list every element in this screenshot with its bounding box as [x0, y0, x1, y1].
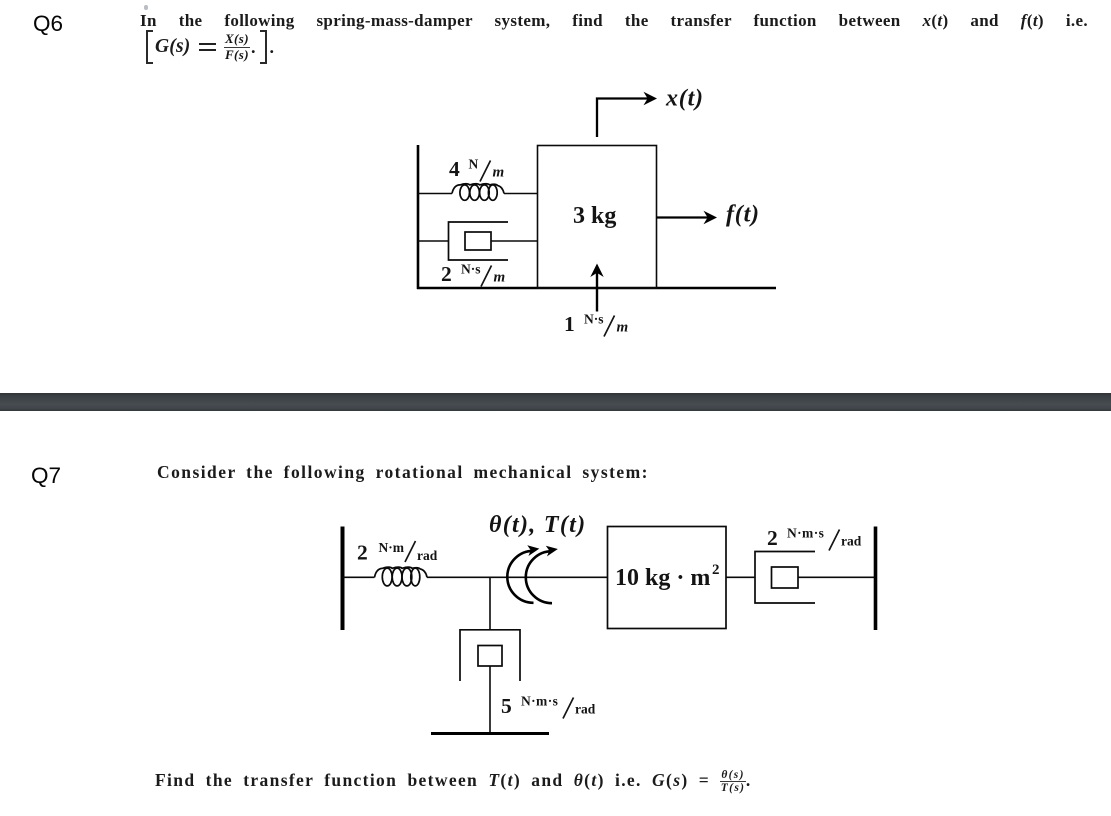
- svg-text:m: m: [493, 165, 505, 181]
- spring K lead wire from wall: [418, 193, 452, 195]
- G(s): [155, 36, 190, 58]
- equals sign: [199, 43, 216, 50]
- displacement arrow x(t): [597, 99, 648, 138]
- period: [251, 37, 256, 58]
- shaft wire from spring to inertia: [427, 576, 608, 578]
- Q7 question number label: [31, 463, 61, 489]
- node label θ(t), T(t): [489, 512, 586, 538]
- spring value label 2 N·m/rad: [357, 540, 438, 565]
- force arrow f(t): [657, 216, 709, 218]
- svg-text:5: 5: [501, 694, 512, 718]
- dark divider bar: [0, 393, 1111, 411]
- svg-text:4: 4: [449, 157, 460, 181]
- friction arrowhead: [590, 264, 603, 278]
- svg-text:f(t): f(t): [726, 202, 760, 228]
- Q7 rotational system diagram: [330, 505, 890, 745]
- force arrowhead: [704, 211, 718, 224]
- mass M box: [538, 146, 657, 289]
- shaft wire from inertia to damper B2r: [726, 576, 755, 578]
- svg-text:10 kg · m: 10 kg · m: [615, 565, 710, 591]
- damper B2r piston: [772, 567, 799, 588]
- left bracket: [146, 30, 153, 64]
- Q6 problem statement line 1 (justified): [140, 11, 1088, 31]
- inertia value label 10 kg·m²: [615, 562, 720, 591]
- spring K coil: [452, 184, 504, 201]
- svg-text:N·m·s: N·m·s: [787, 526, 824, 541]
- svg-text:θ(t), T(t): θ(t), T(t): [489, 512, 586, 538]
- svg-text:2: 2: [712, 562, 720, 578]
- fraction X(s)/F(s): [224, 32, 250, 61]
- svg-text:rad: rad: [575, 702, 596, 717]
- svg-text:x(t): x(t): [665, 86, 704, 112]
- svg-text:m: m: [617, 320, 629, 336]
- ground line: [417, 287, 776, 290]
- trailing period: [269, 37, 274, 58]
- svg-text:3 kg: 3 kg: [573, 203, 616, 229]
- Q6 question number label: [33, 11, 63, 37]
- torque arrow arc outer: [507, 551, 533, 603]
- friction value label 1 N·s/m: [564, 312, 629, 337]
- torque arrow arc inner: [526, 551, 552, 603]
- inertia J box: [608, 527, 727, 629]
- svg-text:2: 2: [357, 541, 368, 565]
- svg-text:rad: rad: [841, 534, 862, 549]
- svg-text:N: N: [469, 157, 479, 172]
- torque arrowhead outer: [527, 543, 541, 556]
- torsional spring lead wire: [343, 576, 375, 578]
- damper B5 cylinder (open bottom): [460, 630, 520, 681]
- svg-text:m: m: [494, 270, 506, 286]
- damper B2r piston rod to right wall: [798, 576, 875, 578]
- ground line: [431, 732, 549, 735]
- Q6 equation [G(s) = X(s)/F(s).].: [146, 32, 274, 63]
- torsional spring coil: [375, 567, 428, 586]
- damper B2 rod from wall: [418, 240, 449, 242]
- damper B2 piston: [465, 232, 491, 250]
- damper value label 2 N·s/m: [441, 262, 506, 287]
- damper B5 piston rod to ground: [489, 666, 491, 734]
- damper B2r value label 2 N·m·s/rad: [767, 526, 862, 551]
- junction wire down to damper: [489, 577, 491, 630]
- stray scan smudge: [144, 5, 148, 10]
- displacement arrowhead: [644, 92, 658, 105]
- svg-text:2: 2: [441, 262, 452, 286]
- Q7 closing text: [155, 769, 752, 795]
- wall (left fixed support): [417, 145, 420, 289]
- damper B2r cylinder (open right): [755, 552, 815, 604]
- Q7 problem statement: [157, 462, 649, 483]
- damper value label 5 N·m·s/rad: [501, 694, 596, 719]
- left wall (fixed support): [341, 527, 345, 631]
- spring value label 4 N/m: [449, 157, 505, 182]
- svg-text:N·s: N·s: [584, 312, 604, 327]
- right wall (fixed support): [874, 527, 878, 631]
- svg-text:1: 1: [564, 312, 575, 336]
- Q6 spring-mass-damper diagram: [380, 82, 800, 342]
- friction arrow (ground damper): [596, 272, 598, 312]
- damper B2 piston rod to mass: [491, 240, 537, 242]
- damper B2 cylinder: [449, 222, 509, 260]
- svg-text:N·m: N·m: [379, 540, 405, 555]
- svg-text:N·s: N·s: [461, 262, 481, 277]
- svg-text:2: 2: [767, 526, 778, 550]
- svg-text:N·m·s: N·m·s: [521, 694, 558, 709]
- spring K lead wire to mass: [504, 193, 537, 195]
- node label x(t): [665, 86, 704, 112]
- torque arrowhead inner: [545, 544, 559, 557]
- damper B5 piston: [478, 646, 502, 667]
- svg-text:rad: rad: [417, 548, 438, 563]
- right bracket: [260, 30, 267, 64]
- node label f(t): [726, 202, 760, 228]
- mass value label 3 kg: [573, 203, 616, 229]
